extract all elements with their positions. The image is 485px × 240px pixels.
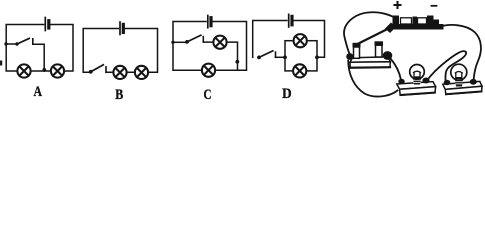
wire bottom swoop to lamp1 [348,61,397,97]
wire C outer loop with battery gap [173,22,247,71]
plus sign [395,2,401,8]
node D left junction [283,55,287,59]
node C left-edge junction [171,41,174,44]
switch S in B (contact dot) [105,67,107,72]
switch base front face [350,62,390,68]
lamp L1 in A [17,64,30,77]
switch S in D (lever) [259,51,273,58]
lamp L2 in A [51,64,64,77]
switch right post cap [375,41,384,46]
lamp2 right screw [470,79,477,85]
lamp1 base top face [397,82,436,90]
wire C branch with drop [203,42,237,70]
battery D short plate [290,16,293,24]
switch S in B (lever) [91,65,104,72]
lamp2 collar [455,80,463,87]
wire D top-right [294,21,325,58]
lamp L1 in D (top) [294,34,307,47]
wire C branch left [173,41,187,43]
wire A branch to drop [33,44,44,71]
lamp L2 in C (bottom) [202,64,215,77]
lamp L2 in D (bottom) [293,64,306,77]
lamp2 left screw [444,80,451,85]
wire battery plus to switch [344,12,395,55]
svg-text:A: A [34,84,43,100]
battery right post [427,16,434,25]
wire lamp2 to battery minus [441,25,481,79]
battery D long plate [288,14,290,27]
node A left-edge junction [4,42,7,45]
lamp2 bulb [451,64,467,80]
switch S in D (pivot dot) [257,56,261,60]
switch lever [357,29,389,45]
wire lamp1 to lamp2 [429,51,467,79]
wire D top-left with battery gap [253,21,287,58]
switch left post [354,47,360,58]
battery C long plate [207,16,209,28]
lamp2 base bottom edge [446,91,481,94]
lamp L2 in B [135,66,148,79]
svg-text:D: D [282,86,292,102]
battery cell 1 [401,18,412,24]
wire B outer loop with battery and switch gaps [83,29,118,73]
switch right terminal blob [383,51,393,60]
node D right junction [315,55,319,59]
switch S in D (contact tick) [275,52,277,57]
switch left terminal blob [346,53,353,60]
lamp L1 in B [113,66,126,79]
svg-text:C: C [204,87,212,103]
switch S in C (lever) [187,35,201,42]
lamp1 bulb [410,65,425,80]
minus sign [432,5,437,7]
wire D switch to junction [276,56,286,58]
lamp2 base front face [445,86,482,94]
battery C short plate [209,18,212,26]
node C bottom junction [235,60,239,64]
lamp1 base bottom edge [400,93,434,95]
battery B short plate [122,24,125,32]
wire D parallel box [285,41,317,71]
battery middle post [413,17,418,25]
node A bottom junction [42,68,46,72]
lamp1 right screw [422,78,429,84]
switch S in C (contact tick) [202,37,204,43]
switch lever handle [385,23,396,34]
svg-text:B: B [115,87,123,103]
switch S in A (lever) [17,38,29,44]
battery A long plate [44,18,46,31]
battery cell 2 [418,18,427,24]
lamp2 filament [455,72,462,80]
switch S in A (contact tick) [32,39,34,44]
switch base top face [350,57,390,63]
wire A outer loop with battery gap [6,25,73,72]
switch S in B (pivot dot) [89,70,93,74]
lamp1 filament [414,71,421,78]
scan speck on left edge [0,61,2,66]
lamp1 left screw [398,79,404,85]
battery left post [393,16,400,25]
lamp1 collar [413,78,421,85]
switch left post cap [353,43,361,48]
lamp L1 in C (branch) [213,36,226,49]
battery right nub [434,20,440,25]
battery B long plate [119,22,121,35]
battery holder bar [392,24,444,30]
battery A short plate [47,21,50,28]
switch S in C (pivot dot) [185,40,189,44]
switch S in A (pivot dot) [15,42,18,45]
lamp2 base top face [443,81,482,89]
wire A branch to switch [6,43,17,45]
lamp1 base front face [400,87,436,96]
switch base bottom edge [350,66,390,69]
wire switch to lamp1 [391,59,402,81]
switch right post [376,45,383,57]
